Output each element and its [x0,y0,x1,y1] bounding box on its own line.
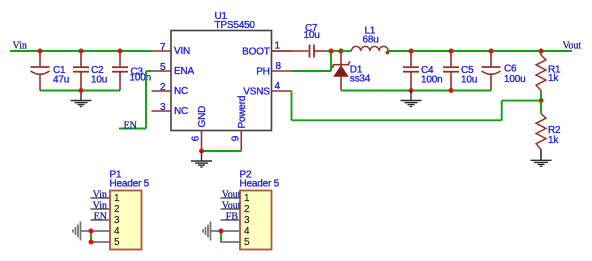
svg-text:Vin: Vin [13,41,27,52]
node junction R1 top [539,49,544,54]
U1 pin 6 GND [191,106,209,151]
svg-text:VIN: VIN [174,46,190,57]
capacitor C6 [482,51,526,91]
resistor R2 [536,101,561,160]
svg-text:100n: 100n [421,75,442,86]
U1 pin 9 Powerd [231,96,248,151]
ground R2 [531,160,552,166]
svg-text:FB: FB [226,212,239,223]
svg-text:VSNS: VSNS [243,86,270,97]
net label EN [124,121,137,132]
header P1 connector [110,170,150,250]
node junction C6 top [489,49,494,54]
svg-text:EN: EN [124,121,137,132]
svg-text:1: 1 [244,193,250,204]
capacitor C5 [443,51,477,91]
svg-text:5: 5 [244,237,250,248]
P2 pin 1 [221,193,251,204]
node junction P1 pin5 [89,240,94,245]
svg-text:1k: 1k [548,73,559,84]
svg-text:Header 5: Header 5 [110,179,150,190]
P2 pin 4 [211,226,251,237]
wire C7 to PH node [326,50,341,52]
net label Vin P1.1 [93,190,107,201]
svg-text:6: 6 [191,135,202,141]
ground output section [401,91,422,107]
svg-text:47u: 47u [53,75,69,86]
svg-text:NC: NC [174,86,188,97]
svg-text:Vout: Vout [563,41,582,52]
ground P1 [73,222,81,241]
svg-text:5: 5 [160,62,166,73]
U1 pin 5 ENA [152,62,195,77]
svg-text:8: 8 [276,61,282,72]
net label Vout P2.2 [222,201,241,212]
node junction feedback [539,98,544,103]
svg-text:3: 3 [160,102,166,113]
svg-text:10u: 10u [461,75,477,86]
wire L1 to Vout rail [388,50,572,52]
wire PH riser [292,51,332,71]
svg-text:Vin: Vin [93,201,107,212]
svg-text:1k: 1k [548,135,559,146]
P1 pin 2 [91,204,121,215]
net label Vin [13,41,27,52]
wire P2 pin4 to pin5 [220,231,222,242]
svg-text:Vout: Vout [222,190,241,201]
wire P1 pin4 to pin5 [90,231,92,242]
svg-text:5: 5 [114,237,120,248]
wire Vin top rail [10,50,152,52]
wire feedback VSNS [292,91,542,120]
svg-text:100u: 100u [504,74,525,85]
svg-text:100n: 100n [130,73,151,84]
capacitor C3 [112,51,151,91]
svg-text:Vin: Vin [93,190,107,201]
svg-text:Powerd: Powerd [237,96,248,129]
svg-text:3: 3 [244,215,250,226]
svg-text:ENA: ENA [174,66,194,77]
svg-text:EN: EN [94,212,107,223]
svg-text:BOOT: BOOT [242,46,270,57]
net label Vout [563,41,582,52]
svg-text:9: 9 [231,135,242,141]
capacitor C7 [272,23,327,58]
diode D1 ss34 schottky [332,51,371,91]
net label Vin P1.2 [93,201,107,212]
svg-text:TPS5450: TPS5450 [215,20,256,31]
inductor L1 [352,26,390,55]
net label Vout P2.1 [222,190,241,201]
wire EN to ENA pin [119,71,152,129]
P1 pin 5 [91,237,121,248]
svg-text:C6: C6 [504,64,517,75]
node junction P1 pin4 [89,229,94,234]
header P2 connector [240,170,280,250]
node junction P2 pin4 [219,229,224,234]
U1 pin 7 VIN [152,42,191,57]
svg-text:4: 4 [114,226,120,237]
wire D1 to L1 [341,50,352,52]
wire input bottom rail [40,90,120,92]
node junction C5 bottom [449,88,454,93]
svg-text:2: 2 [160,82,166,93]
P1 pin 4 [81,226,121,237]
net label FB P2.3 [226,212,239,223]
U1 pin 3 NC [152,102,189,117]
U1 pin 4 VSNS [243,81,291,98]
ground input section [71,91,92,107]
svg-text:GND: GND [197,106,208,128]
node junction GND pin [199,149,204,154]
wire GND to Powerd [202,150,242,152]
node junction PH [329,49,334,54]
P2 pin 5 [221,237,251,248]
svg-text:1: 1 [275,41,281,52]
svg-text:3: 3 [114,215,120,226]
U1 pin 1 BOOT [242,41,291,58]
svg-text:Vout: Vout [222,201,241,212]
svg-text:7: 7 [160,42,166,53]
wire output bottom rail [341,90,491,92]
svg-text:2: 2 [244,204,250,215]
U1 pin 8 PH [256,61,291,78]
svg-text:4: 4 [244,226,250,237]
capacitor C1 [31,51,70,91]
svg-text:68u: 68u [363,35,379,46]
node junction D1 top [339,49,344,54]
P2 pin 3 [221,215,251,226]
svg-text:NC: NC [174,106,188,117]
resistor R1 [536,51,561,101]
capacitor C2 [73,51,107,91]
P1 pin 3 [91,215,121,226]
capacitor C4 [403,51,442,91]
svg-text:Header 5: Header 5 [240,179,280,190]
ground U1 [191,151,212,167]
svg-text:ss34: ss34 [350,73,371,84]
svg-text:2: 2 [114,204,120,215]
svg-text:1: 1 [114,193,120,204]
node junction C1 top [38,49,43,54]
net label EN P1.3 [94,212,107,223]
node junction C5 top [449,49,454,54]
svg-text:PH: PH [256,66,270,77]
svg-text:10u: 10u [91,75,107,86]
op-amp U1 TPS5450 IC body [171,11,272,131]
node junction C3 top [118,49,123,54]
node junction C2 bottom [79,88,84,93]
ground P2 [203,222,211,241]
svg-text:10u: 10u [304,30,320,41]
U1 pin 2 NC [152,82,189,97]
svg-text:4: 4 [275,81,281,92]
P1 pin 1 [91,193,121,204]
node junction C4 bottom [409,88,414,93]
node junction C4 top [409,49,414,54]
node junction C2 top [79,49,84,54]
P2 pin 2 [221,204,251,215]
